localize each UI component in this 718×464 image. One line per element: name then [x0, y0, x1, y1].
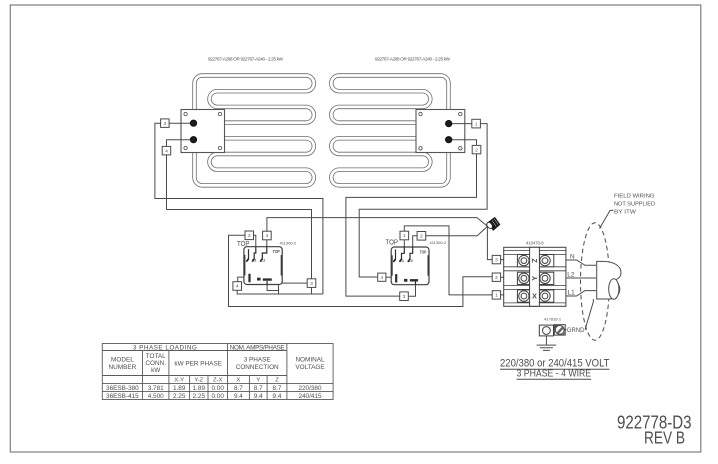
- svg-text:922767-A208 OR 922767-A240 - 2: 922767-A208 OR 922767-A240 - 2.25 kW: [208, 57, 284, 62]
- svg-text:TOP: TOP: [273, 249, 280, 254]
- svg-text:2: 2: [495, 275, 498, 280]
- svg-text:3 PHASE - 4 WIRE: 3 PHASE - 4 WIRE: [517, 369, 592, 380]
- svg-text:1: 1: [495, 293, 498, 298]
- svg-text:240/415: 240/415: [298, 393, 322, 400]
- svg-text:1.89: 1.89: [173, 385, 186, 392]
- svg-text:L1: L1: [252, 259, 256, 263]
- svg-text:NOMINAL: NOMINAL: [295, 357, 325, 364]
- svg-text:417816-1: 417816-1: [544, 317, 562, 322]
- svg-text:X: X: [532, 292, 537, 301]
- svg-text:1: 1: [403, 233, 406, 238]
- svg-text:8.7: 8.7: [273, 385, 282, 392]
- svg-text:Y-Z: Y-Z: [194, 378, 203, 384]
- svg-text:2: 2: [248, 233, 251, 238]
- svg-text:9.4: 9.4: [254, 393, 263, 400]
- svg-text:3: 3: [403, 294, 406, 299]
- svg-text:NOM. AMPS/PHASE: NOM. AMPS/PHASE: [230, 344, 285, 351]
- svg-text:1: 1: [475, 121, 478, 126]
- svg-text:Y: Y: [256, 378, 260, 384]
- svg-text:BY ITW: BY ITW: [614, 210, 637, 216]
- svg-text:Y: Y: [530, 276, 539, 281]
- svg-text:CONNECTION: CONNECTION: [236, 364, 279, 371]
- svg-text:L1: L1: [568, 289, 576, 296]
- svg-text:922767-A208 OR 922767-A240 - 2: 922767-A208 OR 922767-A240 - 2.25 kW: [375, 57, 451, 62]
- svg-text:4.500: 4.500: [148, 393, 164, 400]
- svg-text:411300-2: 411300-2: [430, 240, 447, 245]
- svg-text:X-Y: X-Y: [174, 378, 184, 384]
- svg-text:220/380: 220/380: [298, 385, 322, 392]
- svg-text:411300-2: 411300-2: [280, 240, 297, 245]
- svg-text:3: 3: [495, 257, 498, 262]
- svg-text:kW: kW: [151, 367, 161, 374]
- svg-text:REV B: REV B: [644, 428, 685, 448]
- svg-text:L2: L2: [408, 259, 412, 263]
- svg-text:L1: L1: [400, 259, 404, 263]
- svg-text:4: 4: [381, 275, 384, 280]
- svg-text:MODEL: MODEL: [111, 357, 134, 364]
- svg-text:CONN.: CONN.: [145, 360, 166, 367]
- svg-text:9.4: 9.4: [273, 393, 282, 400]
- svg-text:VOLTAGE: VOLTAGE: [295, 364, 324, 371]
- svg-text:GRND: GRND: [567, 327, 585, 334]
- svg-text:36ESB-380: 36ESB-380: [106, 385, 139, 392]
- svg-text:2.25: 2.25: [193, 393, 206, 400]
- svg-text:8.7: 8.7: [234, 385, 243, 392]
- svg-text:kW PER PHASE: kW PER PHASE: [174, 361, 222, 368]
- svg-text:2: 2: [420, 234, 423, 239]
- svg-text:36ESB-415: 36ESB-415: [106, 393, 139, 400]
- svg-text:L2: L2: [567, 272, 575, 279]
- svg-text:L2: L2: [261, 259, 265, 263]
- svg-text:4: 4: [266, 233, 269, 238]
- svg-text:TOP: TOP: [420, 250, 427, 255]
- svg-text:0.00: 0.00: [211, 385, 224, 392]
- svg-text:Z: Z: [530, 258, 539, 263]
- svg-text:X: X: [236, 378, 240, 384]
- svg-text:TOTAL: TOTAL: [146, 353, 166, 360]
- svg-text:NOT SUPPLIED: NOT SUPPLIED: [614, 202, 655, 208]
- svg-text:3.781: 3.781: [148, 385, 164, 392]
- svg-text:3: 3: [164, 121, 167, 126]
- svg-text:4: 4: [165, 148, 168, 153]
- svg-text:NUMBER: NUMBER: [109, 364, 137, 371]
- svg-text:3: 3: [310, 281, 313, 286]
- svg-text:9.4: 9.4: [234, 393, 243, 400]
- svg-text:2.25: 2.25: [173, 393, 186, 400]
- svg-text:3 PHASE LOADING: 3 PHASE LOADING: [133, 344, 197, 351]
- svg-text:FIELD WIRING: FIELD WIRING: [614, 194, 655, 200]
- svg-text:0.00: 0.00: [211, 393, 224, 400]
- svg-text:8.7: 8.7: [254, 385, 263, 392]
- svg-text:N: N: [570, 254, 575, 261]
- svg-text:410470-8: 410470-8: [526, 241, 544, 246]
- svg-text:1.89: 1.89: [193, 385, 206, 392]
- svg-text:Z: Z: [275, 378, 279, 384]
- svg-text:TOP: TOP: [386, 239, 399, 246]
- svg-text:3 PHASE: 3 PHASE: [244, 357, 271, 364]
- svg-text:Z-X: Z-X: [213, 378, 223, 384]
- svg-text:4: 4: [236, 284, 239, 289]
- svg-text:TOP: TOP: [237, 241, 250, 248]
- svg-text:2: 2: [475, 147, 478, 152]
